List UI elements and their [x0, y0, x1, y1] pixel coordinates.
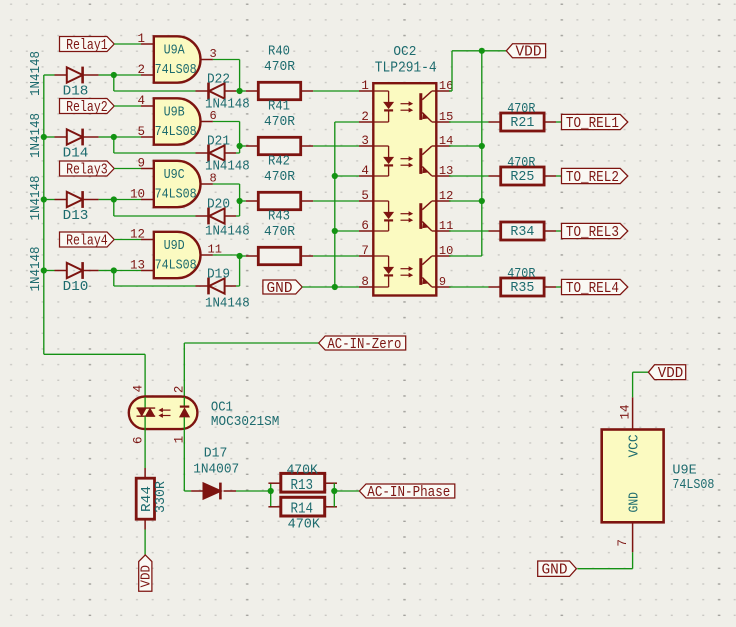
pin 10 [436, 255, 450, 257]
wire Relay2 to gate [114, 105, 141, 107]
light arrows [401, 158, 410, 160]
OC2 phototransistor pins 10/9 [419, 258, 422, 285]
svg-text:5: 5 [137, 125, 145, 139]
svg-text:470R: 470R [264, 224, 296, 240]
pin 9 of U9C [141, 168, 154, 170]
svg-text:R40: R40 [268, 44, 290, 60]
pin 10 of U9C [141, 199, 154, 201]
svg-text:D14: D14 [63, 146, 89, 162]
and-gate U9B 74LS08 [154, 98, 201, 144]
resistor R40 470R [240, 90, 246, 92]
pin 14 [436, 145, 450, 147]
pin 8 [359, 286, 373, 288]
svg-text:TO_REL2: TO_REL2 [566, 169, 619, 186]
pin 7 [359, 255, 373, 257]
svg-text:D22: D22 [207, 72, 230, 88]
svg-text:1: 1 [137, 32, 145, 46]
svg-text:6: 6 [132, 436, 146, 444]
svg-text:R41: R41 [268, 99, 290, 115]
svg-text:1N4148: 1N4148 [205, 295, 250, 311]
svg-text:GND: GND [626, 492, 642, 513]
diode D21 1N4148 [196, 152, 208, 154]
svg-text:470K: 470K [286, 462, 318, 478]
global label Relay2 [60, 99, 115, 114]
svg-text:D19: D19 [207, 267, 230, 283]
global label AC-IN-Zero [319, 336, 406, 350]
svg-text:VCC: VCC [626, 435, 642, 458]
and-gate U9A 74LS08 [154, 36, 201, 82]
OC1 triac symbol [137, 407, 156, 409]
svg-text:2: 2 [137, 63, 145, 77]
diode D18 1N4148 [44, 74, 55, 76]
wire Relay3 to gate [114, 168, 141, 170]
pin 12 of U9D [141, 239, 154, 241]
pin 8 output of U9C [201, 183, 213, 185]
diode D10 1N4148 [44, 270, 55, 272]
svg-text:R13: R13 [291, 477, 314, 494]
pin 1 [359, 90, 373, 92]
resistor R14 470K [268, 506, 280, 508]
global label Relay3 [60, 161, 115, 176]
wire junction to pin 5 [114, 136, 141, 138]
wire Relay1 to gate [114, 43, 141, 45]
svg-text:D21: D21 [207, 134, 230, 150]
pin 15 [436, 121, 450, 123]
svg-text:R25: R25 [510, 169, 534, 185]
svg-text:VDD: VDD [658, 365, 684, 382]
wire [144, 354, 146, 397]
diode D20 1N4148 [196, 215, 208, 217]
pin 5 of U9B [141, 136, 154, 138]
svg-text:D10: D10 [63, 279, 89, 295]
svg-text:470R: 470R [507, 101, 536, 117]
diode D22 1N4148 [196, 90, 208, 92]
pin 4 [359, 175, 373, 177]
pin 16 [436, 90, 450, 92]
OC2 phototransistor pins 16/15 [419, 93, 422, 120]
pin 5 [359, 200, 373, 202]
OC2 phototransistor pins 12/11 [419, 203, 422, 229]
pin 3 [359, 145, 373, 147]
svg-text:74LS08: 74LS08 [155, 124, 197, 140]
junction output node row 201 [237, 198, 243, 204]
pin 13 of U9D [141, 270, 154, 272]
wire output of U9D [213, 254, 240, 256]
GND column left of OC2 (pins 2,4,6,8) [335, 121, 359, 123]
svg-text:9: 9 [137, 157, 145, 171]
gate U9E 74LS08 power unit [602, 430, 664, 523]
global label TO_REL2 [562, 168, 628, 183]
svg-text:12: 12 [130, 228, 145, 242]
svg-text:Relay4: Relay4 [66, 232, 108, 249]
wire OC2 pin 12 to VDD rail [449, 200, 482, 202]
OC2 phototransistor pins 14/13 [419, 148, 422, 174]
svg-text:R35: R35 [510, 280, 534, 296]
pin 2 [359, 121, 373, 123]
optocoupler OC2 TLP291-4 body [373, 83, 436, 295]
power label GND at OC2 pin 8 [263, 280, 302, 294]
diode D17 1N4007 [191, 490, 203, 492]
OC2 channel pins 5/6 LED [373, 200, 388, 202]
light arrows [401, 213, 410, 215]
diode D13 1N4148 [44, 199, 55, 201]
OC2 channel pins 7/8 LED [373, 255, 388, 257]
and-gate U9C 74LS08 [154, 161, 201, 207]
svg-text:U9A: U9A [164, 42, 186, 58]
junction output node row 256 [237, 253, 243, 259]
svg-text:Relay3: Relay3 [66, 161, 108, 178]
svg-text:1N4007: 1N4007 [193, 462, 239, 478]
wire GND to OC2 pin 8 [302, 286, 359, 288]
svg-text:U9D: U9D [164, 238, 185, 254]
resistor R42 470R [240, 200, 246, 202]
svg-text:R43: R43 [268, 209, 290, 225]
pin 4 of U9B [141, 105, 154, 107]
svg-text:AC-IN-Zero: AC-IN-Zero [327, 336, 401, 353]
junction on left rail [41, 267, 47, 273]
wire feedback under gate U9D [113, 271, 115, 287]
svg-text:TO_REL1: TO_REL1 [566, 115, 619, 132]
svg-text:470R: 470R [507, 266, 536, 282]
left power rail wire (vertical net of input diodes) [43, 75, 45, 354]
light arrows [401, 103, 410, 105]
svg-text:MOC3021SM: MOC3021SM [211, 414, 280, 430]
junction at input of U9D [111, 267, 117, 273]
wire junction to pin 2 [114, 74, 141, 76]
diode D14 1N4148 [44, 136, 55, 138]
pin 6 output of U9B [201, 121, 213, 123]
light arrows [401, 268, 410, 270]
pin 7 GND of U9E [632, 522, 634, 552]
pin 13 [436, 175, 450, 177]
wire AC-IN-Zero to OC1 pin 2 [184, 342, 318, 344]
wire output of U9B [213, 121, 240, 123]
junction output node row 91 [237, 88, 243, 94]
svg-text:Relay2: Relay2 [66, 99, 108, 116]
pin 3 output of U9A [201, 59, 213, 61]
svg-text:74LS08: 74LS08 [155, 258, 197, 274]
svg-text:74LS08: 74LS08 [672, 477, 714, 493]
svg-text:13: 13 [130, 259, 145, 273]
resistor R44 330R [144, 468, 146, 478]
svg-text:VDD: VDD [516, 44, 542, 61]
power label VDD (bottom right) [648, 365, 685, 380]
svg-text:OC2: OC2 [393, 44, 416, 60]
svg-text:2: 2 [361, 110, 369, 124]
pin 11 output of U9D [201, 254, 213, 256]
svg-text:GND: GND [267, 280, 293, 297]
wire [44, 353, 145, 355]
power label GND (bottom right) [538, 561, 577, 576]
wire junction to pin 10 [114, 199, 141, 201]
svg-text:D18: D18 [63, 84, 89, 100]
resistor R21 470R [449, 121, 489, 123]
svg-text:D20: D20 [207, 197, 230, 213]
OC1 light arrows [163, 409, 171, 411]
svg-text:R42: R42 [268, 154, 290, 170]
global label Relay1 [60, 37, 115, 52]
svg-text:10: 10 [130, 188, 145, 202]
svg-text:4: 4 [361, 164, 369, 178]
global label Relay4 [60, 232, 115, 247]
svg-text:6: 6 [361, 219, 369, 233]
svg-text:74LS08: 74LS08 [155, 62, 197, 78]
wire output of U9C [213, 183, 240, 185]
wire OC2 pin 10 to VDD rail [449, 255, 482, 257]
svg-text:1: 1 [173, 436, 187, 444]
resistor R41 470R [240, 145, 246, 147]
svg-text:14: 14 [618, 404, 632, 419]
svg-text:R14: R14 [291, 501, 314, 518]
svg-text:U9C: U9C [164, 167, 185, 183]
pin 14 VCC of U9E [632, 397, 634, 429]
resistor R43 470R [240, 255, 246, 257]
svg-text:Relay1: Relay1 [66, 37, 108, 54]
svg-text:470R: 470R [507, 155, 536, 171]
svg-text:4: 4 [132, 385, 146, 393]
pin 6 [359, 230, 373, 232]
svg-text:1N4148: 1N4148 [205, 223, 250, 239]
wire junction to pin 13 [114, 270, 141, 272]
wire output of U9A [213, 59, 240, 61]
svg-text:1: 1 [361, 79, 369, 93]
junction R13/R14 left [268, 488, 274, 494]
power label VDD (bottom) [139, 555, 152, 591]
svg-text:7: 7 [361, 244, 369, 258]
OC2 channel pins 1/2 LED [373, 90, 388, 92]
wire to AC-IN-Phase [334, 490, 359, 492]
svg-text:4: 4 [137, 94, 145, 108]
global label TO_REL1 [562, 114, 628, 129]
optocoupler OC1 MOC3021SM body [129, 397, 198, 430]
OC1 pin 1 (bottom right) [183, 417, 185, 491]
diode D19 1N4148 [196, 285, 208, 287]
junction R13/R14 right [333, 483, 335, 507]
pin 2 of U9A [141, 74, 154, 76]
svg-text:OC1: OC1 [211, 400, 233, 416]
wire OC2 pin 14 to VDD rail [449, 145, 482, 147]
svg-text:330R: 330R [153, 480, 169, 513]
pin 11 [436, 230, 450, 232]
svg-text:8: 8 [361, 275, 369, 289]
svg-text:TO_REL4: TO_REL4 [566, 280, 619, 297]
pin 9 [436, 286, 450, 288]
power label VDD (top) [506, 44, 545, 58]
OC1 pin 2 (top right) [183, 397, 185, 407]
svg-text:470R: 470R [264, 169, 296, 185]
svg-text:470R: 470R [264, 114, 296, 130]
svg-text:GND: GND [542, 562, 568, 579]
svg-text:AC-IN-Phase: AC-IN-Phase [367, 484, 450, 501]
OC2 channel pins 3/4 LED [373, 145, 388, 147]
junction on left rail [41, 196, 47, 202]
wire feedback under gate U9A [113, 75, 115, 91]
wire feedback under gate U9C [113, 200, 115, 217]
svg-text:VDD: VDD [138, 565, 154, 588]
resistor R35 470R [449, 286, 489, 288]
wire OC1 pin1 to D17 [184, 490, 191, 492]
svg-text:D13: D13 [63, 208, 89, 224]
svg-text:U9B: U9B [164, 104, 185, 120]
junction on left rail [41, 134, 47, 140]
global label AC-IN-Phase [359, 484, 454, 498]
wire feedback under gate U9B [113, 137, 115, 153]
svg-text:TO_REL3: TO_REL3 [566, 224, 619, 241]
OC1 pin 4 (top left) [144, 397, 146, 408]
svg-text:TLP291-4: TLP291-4 [375, 60, 437, 77]
svg-text:D17: D17 [204, 446, 228, 462]
VDD rail right of OC2 [449, 90, 452, 92]
junction at input of U9C [111, 196, 117, 202]
wire Relay4 to gate [114, 239, 141, 241]
svg-text:R21: R21 [510, 115, 534, 131]
svg-text:3: 3 [361, 134, 369, 148]
svg-text:470R: 470R [264, 59, 296, 75]
resistor R25 470R [449, 175, 489, 177]
pin 1 of U9A [141, 43, 154, 45]
svg-text:470K: 470K [288, 517, 321, 533]
junction at input of U9A [111, 72, 117, 78]
svg-text:1N4148: 1N4148 [28, 51, 44, 96]
svg-text:9: 9 [439, 275, 446, 289]
svg-text:5: 5 [361, 189, 369, 203]
resistor R13 470K [270, 483, 272, 507]
svg-text:R34: R34 [510, 224, 534, 240]
pin 12 [436, 200, 450, 202]
resistor R34 470R [449, 230, 489, 232]
OC1 LED symbol [180, 406, 190, 408]
OC1 pin 6 (bottom left) [144, 416, 146, 468]
junction output node row 146 [237, 143, 243, 149]
global label TO_REL3 [562, 223, 628, 238]
svg-text:2: 2 [173, 386, 187, 394]
junction at input of U9B [111, 134, 117, 140]
svg-text:74LS08: 74LS08 [155, 187, 197, 203]
and-gate U9D 74LS08 [154, 232, 201, 278]
global label TO_REL4 [562, 279, 628, 294]
svg-text:7: 7 [616, 539, 630, 547]
